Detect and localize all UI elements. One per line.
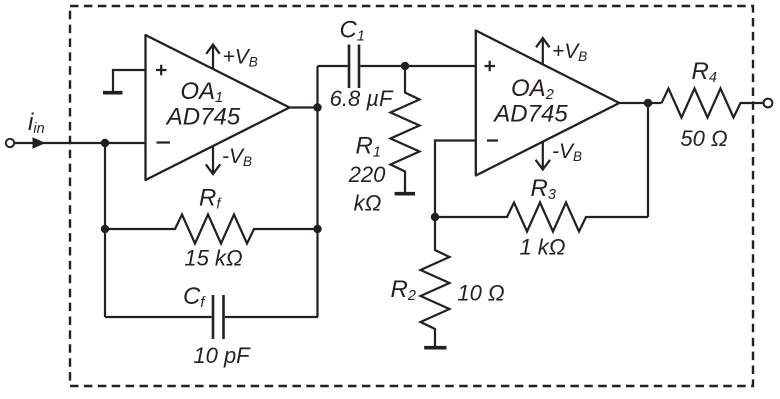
- wire R3 to output node: [647, 103, 649, 217]
- wire left feedback vertical: [104, 143, 106, 317]
- label 50 Ohm: [680, 126, 727, 151]
- svg-text:AD745: AD745: [492, 101, 568, 128]
- svg-text:10 Ω: 10 Ω: [457, 281, 504, 306]
- op-amp U2 OA2: [476, 31, 620, 176]
- svg-text:10 pF: 10 pF: [193, 343, 251, 368]
- wire OA2 output: [619, 102, 661, 104]
- svg-text:50 Ω: 50 Ω: [680, 126, 727, 151]
- ground G1: [103, 91, 123, 95]
- label kOhm R1: [354, 191, 382, 216]
- node N1 input junction: [101, 139, 109, 147]
- input terminal: [6, 139, 14, 147]
- node N6 R2/R3 junction: [431, 213, 439, 221]
- output terminal: [764, 99, 773, 108]
- label AD745 OA1: [165, 104, 241, 131]
- label +VB OA2: [552, 40, 587, 64]
- wire OA1 output: [290, 106, 318, 108]
- label -VB OA1: [222, 145, 252, 169]
- node N2 Rf left: [101, 225, 109, 233]
- wire input: [15, 142, 105, 144]
- label AD745 OA2: [492, 101, 568, 128]
- node N4 OA1 output junction: [313, 103, 321, 111]
- -VB arrow OA1: [206, 146, 220, 174]
- svg-text:1 kΩ: 1 kΩ: [519, 235, 565, 260]
- +VB arrow OA1: [206, 45, 219, 70]
- svg-text:6.8 µF: 6.8 µF: [330, 86, 394, 111]
- label Cf: [183, 283, 206, 311]
- label 10 pF: [193, 343, 251, 368]
- svg-text:kΩ: kΩ: [354, 191, 382, 216]
- capacitor Cf: [105, 295, 318, 339]
- resistor R4: [662, 89, 764, 118]
- wire OA2 inverting input: [435, 141, 476, 218]
- svg-text:AD745: AD745: [165, 104, 241, 131]
- label +VB OA1: [223, 46, 258, 70]
- label R3: [531, 175, 556, 203]
- op-amp U1 OA1: [146, 35, 290, 180]
- ground G2: [395, 192, 415, 196]
- resistor R1: [391, 66, 420, 193]
- ground G3: [424, 346, 446, 350]
- label OA1: [180, 78, 223, 106]
- label C1: [340, 17, 365, 45]
- label 6.8 uF: [330, 86, 394, 111]
- label -VB OA2: [552, 140, 582, 164]
- resistor R2: [421, 217, 450, 348]
- node N5 C1/R1 junction: [401, 62, 409, 70]
- label 10 Ohm: [457, 281, 504, 306]
- label R2: [391, 276, 416, 304]
- node N3 Rf right: [313, 225, 321, 233]
- label R4: [692, 58, 717, 86]
- svg-text:220: 220: [348, 162, 386, 187]
- label 220: [348, 162, 386, 187]
- node N7 output junction: [644, 99, 652, 107]
- label 1 kOhm: [519, 235, 565, 260]
- wire right feedback vertical: [316, 66, 318, 317]
- capacitor C1: [318, 45, 476, 89]
- label Rf: [199, 185, 222, 213]
- label i_in: [28, 109, 45, 137]
- label R1: [356, 133, 381, 161]
- +VB arrow OA2: [536, 38, 549, 64]
- svg-text:15 kΩ: 15 kΩ: [184, 246, 242, 271]
- current arrow: [33, 137, 46, 149]
- -VB arrow OA2: [536, 142, 550, 170]
- resistor Rf: [105, 215, 318, 244]
- label 15 kOhm: [184, 246, 242, 271]
- label OA2: [511, 75, 554, 103]
- resistor R3: [435, 203, 648, 232]
- wire OA1 noninverting input to ground: [113, 70, 146, 93]
- wire N1 to OA1 inverting input: [105, 142, 146, 144]
